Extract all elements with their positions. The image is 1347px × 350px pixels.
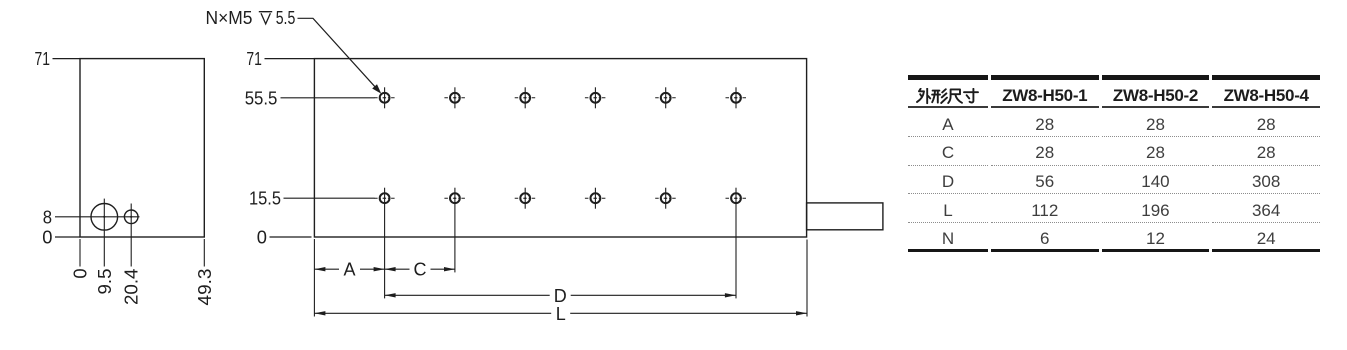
dimension L arrowheads [314,311,807,315]
svg-text:20.4: 20.4 [122,269,142,306]
depth symbol [259,12,272,24]
dimension D line [385,294,736,296]
leader line 8 / hole centerline horizontal [55,216,140,218]
hole H8 [444,188,465,273]
svg-text:71: 71 [35,49,51,69]
big hole vertical centerline / extension 9.5 [103,199,105,267]
side tab outline [807,203,883,230]
dimension C arrowheads [385,267,455,271]
leader line 0 (left view) [55,236,80,238]
extension line L right [806,240,808,317]
dimension A line [314,268,384,270]
hole H2 [444,87,465,108]
dimension D arrowheads [385,293,736,297]
svg-text:A: A [343,260,355,280]
svg-text:D: D [554,286,567,306]
dimension L line [314,312,807,314]
hole H11 [655,188,676,209]
front view body outline [314,59,806,237]
hole H9 [515,188,536,209]
dimension C line [385,268,455,270]
svg-text:C: C [414,260,427,280]
small hole center dot [130,216,132,218]
spec table [905,75,1323,252]
big hole center dot [103,216,105,218]
hole H6 [726,87,747,108]
dimension A arrowheads [314,267,384,271]
extension line 0 (left view bottom) [79,239,81,267]
leader line 0 (front view) [270,236,312,238]
svg-text:0: 0 [257,228,267,248]
svg-text:71: 71 [246,49,262,69]
hole H3 [515,87,536,108]
big hole circle (left view) [91,204,118,231]
svg-text:L: L [556,304,566,324]
left view body outline [80,59,204,237]
hole H5 [655,87,676,108]
callout arrowhead [372,84,381,94]
small hole circle (left view) [124,210,138,224]
leader line 71 (left view) [53,58,81,60]
extension line L left [313,239,315,317]
svg-text:15.5: 15.5 [249,189,281,209]
svg-text:9.5: 9.5 [95,269,115,295]
svg-text:55.5: 55.5 [245,88,278,108]
svg-text:5.5: 5.5 [276,8,296,28]
svg-text:49.3: 49.3 [195,269,215,306]
small hole vertical centerline / extension 20.4 [130,204,132,267]
hole H7 [374,188,395,299]
leader line 71 (front view) [265,58,315,60]
svg-text:0: 0 [42,228,52,248]
hole H12 [726,188,747,299]
svg-text:8: 8 [43,207,52,227]
callout leader polyline [298,18,379,90]
hole H10 [585,188,606,209]
extension line 49.3 [203,239,205,267]
hole H1 [374,87,395,108]
leader line 55.5 [281,97,375,99]
svg-text:N×M5: N×M5 [206,8,253,28]
svg-text:0: 0 [71,269,91,279]
hole H4 [585,87,606,108]
leader line 15.5 [284,197,375,199]
